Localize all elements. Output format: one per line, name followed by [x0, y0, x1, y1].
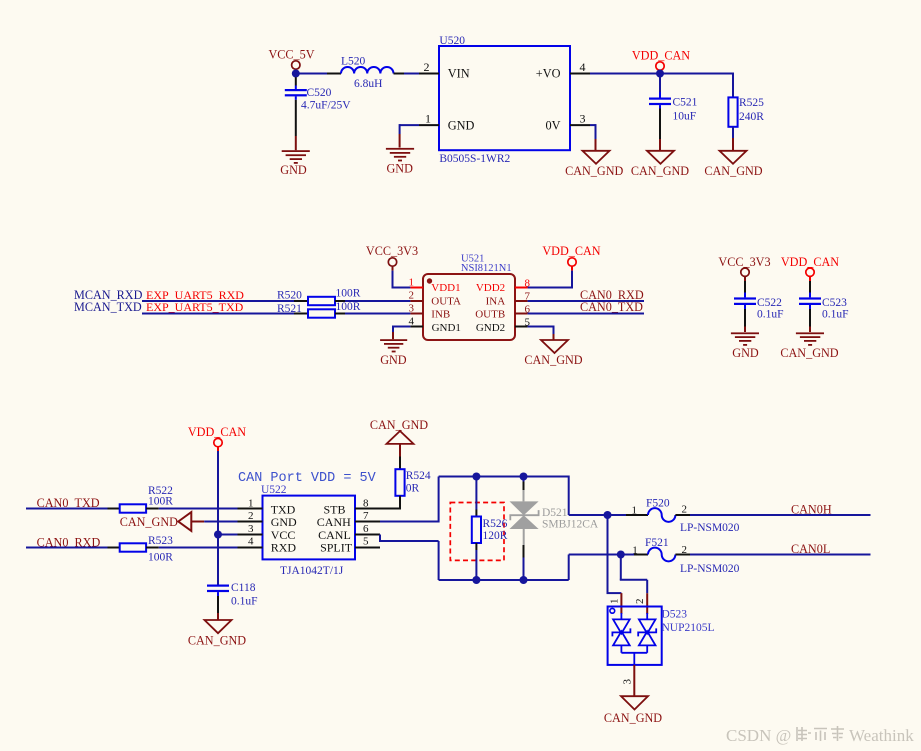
ground GND (under C522) [731, 332, 759, 360]
ground CAN_GND (under C521) [631, 151, 689, 178]
pin 8 U522 [355, 497, 380, 509]
ground CAN_GND (under C118) [188, 620, 246, 647]
wire bottom rail [439, 579, 569, 581]
node R526 bottom [472, 576, 480, 584]
pin 5 U521 [515, 316, 531, 328]
svg-text:LP-NSM020: LP-NSM020 [680, 563, 740, 575]
pin 7 U521 [515, 291, 531, 303]
TVS pair B inside D523 [638, 613, 656, 653]
wire C522 to GND [744, 309, 746, 332]
regulator U520 body [439, 35, 570, 165]
svg-text:GND2: GND2 [476, 322, 505, 334]
svg-text:SMBJ12CA: SMBJ12CA [542, 518, 599, 530]
svg-text:C523: C523 [822, 297, 847, 309]
node D521 bottom [520, 576, 528, 584]
svg-text:0V: 0V [545, 119, 560, 133]
wire R523 to U522 pin 4 [146, 547, 237, 549]
ground GND (under U521) [380, 339, 407, 367]
svg-text:D521: D521 [542, 507, 568, 519]
svg-text:R520: R520 [277, 289, 302, 301]
wire rail to F520 row [569, 476, 608, 516]
capacitor C521 [649, 74, 698, 123]
svg-text:1: 1 [425, 112, 431, 126]
wire CAN0_RXD [528, 300, 644, 302]
svg-text:CAN_GND: CAN_GND [780, 346, 838, 360]
svg-text:100R: 100R [336, 301, 361, 313]
svg-text:TJA1042T/1J: TJA1042T/1J [280, 565, 344, 577]
svg-text:2: 2 [682, 544, 688, 556]
dashed DNP box around R526 [450, 503, 504, 561]
power port VDD_CAN (top) [632, 48, 690, 71]
ground GND (under C520) [280, 150, 310, 177]
wire C521 to CAN_GND [659, 109, 661, 151]
wire C523 to CAN_GND [809, 309, 811, 332]
pin 2 U521 [409, 290, 424, 302]
svg-text:SPLIT: SPLIT [320, 541, 353, 555]
wire CANH tap to D523 pin 1 [607, 515, 622, 593]
pin 4 U520 [570, 60, 590, 74]
svg-text:5: 5 [363, 536, 369, 548]
svg-text:U520: U520 [439, 35, 465, 47]
svg-text:2: 2 [248, 510, 254, 522]
power port VCC_3V3 (right) [718, 255, 770, 281]
svg-text:D523: D523 [662, 608, 688, 620]
node VCC_5V junction [292, 70, 300, 78]
wire CAN0_RXD to R523 [26, 547, 120, 549]
ground CAN_GND (under U520 pin3) [565, 151, 623, 178]
svg-text:U522: U522 [261, 484, 287, 496]
wire R525 to CAN_GND [732, 127, 734, 151]
svg-text:CAN_GND: CAN_GND [120, 515, 178, 529]
wire R520 to U521 pin 2 [335, 300, 410, 302]
wire VDD_CAN to U521 pin 8 [528, 271, 573, 288]
svg-text:VCC_3V3: VCC_3V3 [366, 244, 418, 258]
svg-text:VDD_CAN: VDD_CAN [542, 244, 600, 258]
wire CAN0_TXD [528, 313, 644, 315]
svg-text:C118: C118 [231, 582, 256, 594]
node F521 / D523 pin2 tap [617, 551, 625, 559]
resistor R520 [277, 287, 361, 305]
wire MCAN_TXD to R521 [142, 313, 308, 315]
power port VDD_CAN (right) [781, 255, 839, 281]
pin 2 U522 [238, 510, 263, 522]
power port VCC_3V3 (middle) [366, 244, 418, 270]
svg-text:10uF: 10uF [673, 110, 697, 122]
pin 6 U522 [355, 523, 380, 535]
svg-text:100R: 100R [336, 287, 361, 299]
svg-text:8: 8 [363, 497, 369, 509]
svg-text:R521: R521 [277, 303, 302, 315]
pin 2 U520 [419, 60, 439, 74]
pin 6 U521 [515, 303, 531, 315]
resistor R521 [277, 301, 361, 318]
svg-text:INA: INA [486, 295, 506, 307]
wire pin3 to CAN_GND [590, 124, 596, 151]
svg-text:2: 2 [634, 599, 646, 605]
wire top rail [439, 476, 569, 478]
wire VDD_CAN vertical to C118 [217, 451, 219, 585]
svg-text:7: 7 [363, 510, 369, 522]
power port VDD_CAN (middle) [542, 244, 600, 270]
svg-text:6.8uH: 6.8uH [354, 78, 382, 90]
diode D521 (TVS, not fitted - grey) [510, 477, 599, 581]
wire U521 pin 4 to GND [393, 326, 410, 340]
node VCC junction U522 pin3 [214, 531, 222, 539]
svg-text:CAN Port VDD = 5V: CAN Port VDD = 5V [238, 471, 377, 486]
svg-text:VDD_CAN: VDD_CAN [632, 48, 690, 62]
svg-text:NUP2105L: NUP2105L [662, 622, 715, 634]
isolator U521 body [423, 253, 515, 340]
wire U522 pin7 CANH up to rail [380, 477, 439, 523]
wire VCC_5V to L520 [296, 73, 327, 75]
svg-text:R524: R524 [406, 470, 431, 482]
resistor R522 [120, 485, 174, 513]
wire pin4 to VDD_CAN [590, 73, 660, 75]
pin 2 D523 [634, 593, 647, 614]
transceiver U522 body [261, 484, 355, 577]
svg-text:INB: INB [431, 309, 450, 321]
svg-text:VCC_3V3: VCC_3V3 [718, 255, 770, 269]
capacitor C523 [799, 281, 849, 320]
svg-text:CAN_GND: CAN_GND [370, 418, 428, 432]
node F520 / D523 pin1 tap [604, 511, 612, 519]
svg-text:0R: 0R [406, 483, 420, 495]
svg-text:CAN_GND: CAN_GND [188, 633, 246, 647]
svg-text:100R: 100R [148, 551, 173, 563]
svg-text:VCC_5V: VCC_5V [268, 47, 314, 61]
svg-text:VIN: VIN [448, 66, 470, 80]
wire CAN_GND to R524 [399, 457, 401, 470]
ground GND (under U520 pin1) [386, 148, 414, 176]
power port CAN_GND (above R524) [370, 418, 428, 457]
pin 1 U522 [238, 497, 263, 509]
pin 3 U520 [570, 112, 590, 126]
pin 5 U522 [355, 536, 380, 548]
svg-text:2: 2 [682, 503, 688, 515]
svg-text:0.1uF: 0.1uF [757, 308, 784, 320]
wire C118 to CAN_GND [217, 596, 219, 620]
ground CAN_GND (under C523) [780, 332, 838, 360]
wire rail to F521 row [569, 555, 621, 581]
svg-text:2: 2 [409, 290, 415, 302]
svg-text:MCAN_TXD: MCAN_TXD [74, 300, 142, 314]
svg-text:F520: F520 [646, 497, 670, 509]
svg-text:0.1uF: 0.1uF [231, 596, 258, 608]
svg-text:0.1uF: 0.1uF [822, 308, 849, 320]
svg-text:3: 3 [622, 679, 634, 685]
resistor R526 [472, 477, 508, 581]
svg-text:GND: GND [380, 353, 407, 367]
capacitor C118 [207, 582, 258, 608]
pin 1 U521 [409, 276, 424, 288]
inductor L520 [341, 56, 393, 90]
ground CAN_GND (under D523) [604, 696, 662, 725]
svg-text:3: 3 [409, 303, 415, 315]
wire VDD junction to U522 pin 3 [218, 534, 238, 536]
pin 3 U522 [238, 523, 263, 535]
ground CAN_GND (under R525) [704, 151, 762, 178]
power port VDD_CAN (bottom) [188, 425, 246, 451]
fuse F520 [608, 497, 740, 533]
svg-text:GND1: GND1 [432, 322, 461, 334]
svg-text:GND: GND [448, 119, 475, 133]
capacitor C522 [734, 281, 784, 320]
wire CANL tap to D523 pin 2 [620, 555, 647, 594]
pin 3 U521 [409, 303, 424, 315]
svg-text:CAN0H: CAN0H [791, 503, 832, 517]
pin 4 U522 [238, 536, 263, 548]
svg-text:GND: GND [386, 162, 413, 176]
svg-text:6: 6 [363, 523, 369, 535]
svg-text:LP-NSM020: LP-NSM020 [680, 522, 740, 534]
svg-text:CAN_GND: CAN_GND [704, 164, 762, 178]
svg-text:RXD: RXD [271, 541, 297, 555]
ground CAN_GND (under U521) [524, 340, 582, 367]
resistor R524 [395, 469, 430, 496]
svg-text:VDD1: VDD1 [431, 282, 460, 294]
svg-text:100R: 100R [148, 495, 173, 507]
svg-text:VDD2: VDD2 [476, 282, 505, 294]
pin 1 U520 [419, 112, 439, 126]
svg-text:3: 3 [248, 523, 254, 535]
svg-text:1: 1 [632, 544, 638, 556]
wire R524 to U522 pin 8 [380, 496, 401, 509]
svg-text:OUTB: OUTB [475, 309, 505, 321]
D523 common leg [621, 653, 647, 665]
wire R521 to U521 pin 3 [335, 313, 410, 315]
wire MCAN_RXD to R520 [142, 300, 308, 302]
pin 1 D523 [609, 593, 622, 614]
svg-text:CAN_GND: CAN_GND [604, 711, 662, 725]
svg-text:1: 1 [609, 599, 621, 605]
svg-text:CAN_GND: CAN_GND [565, 164, 623, 178]
svg-text:F521: F521 [645, 537, 669, 549]
svg-text:L520: L520 [341, 56, 366, 68]
wire VCC_3V3 to U521 pin 1 [392, 271, 411, 288]
svg-text:Weathink: Weathink [849, 726, 914, 745]
diode D523 body [608, 607, 715, 665]
svg-text:240R: 240R [739, 111, 764, 123]
wire L520 to U520 pin 2 [394, 73, 405, 75]
svg-text:GND: GND [732, 346, 759, 360]
node D521 top [520, 473, 528, 481]
svg-text:C520: C520 [307, 87, 332, 99]
svg-text:120R: 120R [483, 530, 508, 542]
node VDD_CAN junction [656, 70, 664, 78]
resistor R523 [120, 535, 174, 563]
wire pin1 to GND [400, 124, 419, 147]
svg-text:CAN_GND: CAN_GND [631, 164, 689, 178]
svg-text:VDD_CAN: VDD_CAN [781, 255, 839, 269]
WATERMARK [726, 726, 914, 745]
pin 8 U521 [515, 277, 531, 289]
power port VCC_5V [268, 47, 314, 71]
svg-text:+VO: +VO [536, 66, 561, 80]
wire U522 pin6 CANL jog [379, 535, 439, 581]
pin 4 U521 [409, 315, 424, 327]
svg-text:4: 4 [248, 536, 254, 548]
resistor R525 [728, 97, 764, 127]
svg-text:4.7uF/25V: 4.7uF/25V [301, 99, 351, 111]
pin 7 U522 [355, 510, 380, 522]
svg-text:R526: R526 [483, 518, 508, 530]
svg-text:CAN0L: CAN0L [791, 542, 830, 556]
svg-text:VDD_CAN: VDD_CAN [188, 425, 246, 439]
svg-text:2: 2 [424, 60, 430, 74]
svg-text:1: 1 [632, 505, 638, 517]
TVS pair A inside D523 [612, 613, 630, 653]
svg-text:4: 4 [580, 60, 586, 74]
svg-text:R523: R523 [148, 535, 173, 547]
wire C520 to GND [295, 100, 297, 150]
pin 3 D523 [622, 665, 635, 696]
power port CAN_GND (arrow, U522 pin2) [120, 512, 205, 531]
svg-text:3: 3 [580, 112, 586, 126]
svg-text:OUTA: OUTA [431, 295, 461, 307]
svg-text:GND: GND [280, 163, 307, 177]
node R526 top [472, 473, 480, 481]
wire R522 to U522 pin 1 [146, 508, 237, 510]
wire CAN_GND arrow to U522 pin 2 [204, 521, 237, 523]
wire F521 to CAN0L [690, 554, 871, 556]
svg-text:1: 1 [248, 497, 254, 509]
wire VDD_CAN to R525 [660, 73, 733, 98]
capacitor C520 [285, 77, 351, 111]
fuse F521 [621, 537, 740, 575]
svg-text:B0505S-1WR2: B0505S-1WR2 [439, 153, 510, 165]
wire U521 pin 5 to CAN_GND [528, 326, 554, 341]
svg-text:CAN0_TXD: CAN0_TXD [580, 300, 643, 314]
wire F520 to CAN0H [690, 514, 871, 516]
svg-text:CSDN @: CSDN @ [726, 726, 791, 745]
svg-text:NSI8121N1: NSI8121N1 [461, 263, 512, 274]
svg-text:CAN_GND: CAN_GND [524, 353, 582, 367]
wire CAN0_TXD to R522 [26, 508, 120, 510]
svg-text:R525: R525 [739, 97, 764, 109]
svg-text:C521: C521 [673, 96, 698, 108]
svg-text:C522: C522 [757, 297, 782, 309]
